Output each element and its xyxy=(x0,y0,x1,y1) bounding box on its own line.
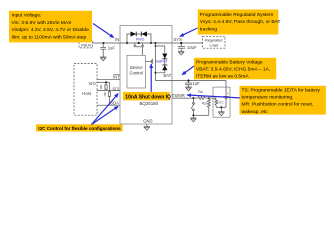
svg-text:Vsys: 4.4-4.9V; Pass through,: Vsys: 4.4-4.9V; Pass through, or BAT xyxy=(200,19,281,25)
svg-text:1uF: 1uF xyxy=(108,46,116,51)
svg-text:BQ25180: BQ25180 xyxy=(140,101,159,106)
svg-text:VIO: VIO xyxy=(89,81,97,86)
svg-text:Host: Host xyxy=(82,91,91,96)
svg-text:Vindpm: 4.2V, 4.5V, 4.7V or Di: Vindpm: 4.2V, 4.5V, 4.7V or Disable xyxy=(12,27,90,33)
svg-text:Control: Control xyxy=(129,71,143,76)
svg-text:wakeup, etc: wakeup, etc xyxy=(242,109,269,115)
svg-text:10k: 10k xyxy=(99,84,103,89)
svg-text:BatFET: BatFET xyxy=(156,59,168,63)
svg-text:Load: Load xyxy=(209,43,217,47)
svg-text:IN: IN xyxy=(115,37,119,42)
svg-text:BAT: BAT xyxy=(164,73,172,78)
svg-text:1uF: 1uF xyxy=(193,81,201,86)
svg-text:SYS: SYS xyxy=(174,37,183,42)
svg-text:Regulated: Regulated xyxy=(205,39,222,43)
svg-text:Vin: 3-5.9V with 25Vin MAX: Vin: 3-5.9V with 25Vin MAX xyxy=(12,20,73,26)
svg-text:INT: INT xyxy=(113,75,120,80)
svg-text:VBUS: VBUS xyxy=(81,42,92,47)
svg-text:Input Voltage:: Input Voltage: xyxy=(12,13,42,19)
svg-text:I2C Control for flexible confi: I2C Control for flexible configurations xyxy=(38,126,121,131)
svg-text:MR: Pushbutton control for res: MR: Pushbutton control for reset, xyxy=(242,102,314,108)
svg-text:SCL: SCL xyxy=(112,87,121,92)
svg-text:10k: 10k xyxy=(103,91,107,96)
svg-text:NTC: NTC xyxy=(218,101,225,105)
svg-text:TS/MR: TS/MR xyxy=(172,93,185,98)
svg-text:Rs: Rs xyxy=(198,90,203,94)
svg-text:GND: GND xyxy=(143,118,152,123)
svg-text:Programmable Regulated System: Programmable Regulated System xyxy=(200,12,273,18)
svg-text:Device: Device xyxy=(130,65,143,70)
svg-text:Ilim: up to 1100mA with 50mA s: Ilim: up to 1100mA with 50mA step xyxy=(12,35,87,41)
svg-text:Programmable Battery Voltage: Programmable Battery Voltage xyxy=(196,59,263,65)
svg-text:ITERM as low as 0.5mA: ITERM as low as 0.5mA xyxy=(196,73,249,79)
svg-text:PMID: PMID xyxy=(136,37,145,41)
svg-text:10uF: 10uF xyxy=(187,45,197,50)
svg-text:tracking: tracking xyxy=(200,26,217,32)
svg-text:Rp: Rp xyxy=(202,101,207,105)
svg-text:temperature monitoring.: temperature monitoring. xyxy=(242,94,294,100)
svg-text:VBAT: 3.5-4.65V, ICHG 5mA – 1A: VBAT: 3.5-4.65V, ICHG 5mA – 1A, xyxy=(196,66,270,72)
svg-text:TS: Programmable JEITA for bat: TS: Programmable JEITA for battery xyxy=(242,87,321,93)
svg-text:10nA Shut down IQ: 10nA Shut down IQ xyxy=(125,95,171,101)
